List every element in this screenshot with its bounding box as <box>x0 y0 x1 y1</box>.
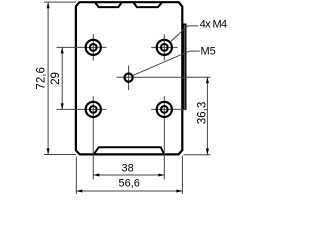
svg-text:4x M4: 4x M4 <box>200 19 227 31</box>
svg-text:38: 38 <box>122 163 134 175</box>
svg-text:56,6: 56,6 <box>119 177 140 189</box>
svg-text:72,6: 72,6 <box>34 67 47 90</box>
svg-text:M5: M5 <box>201 46 216 58</box>
svg-text:29: 29 <box>49 72 62 85</box>
svg-text:36,3: 36,3 <box>195 102 208 125</box>
